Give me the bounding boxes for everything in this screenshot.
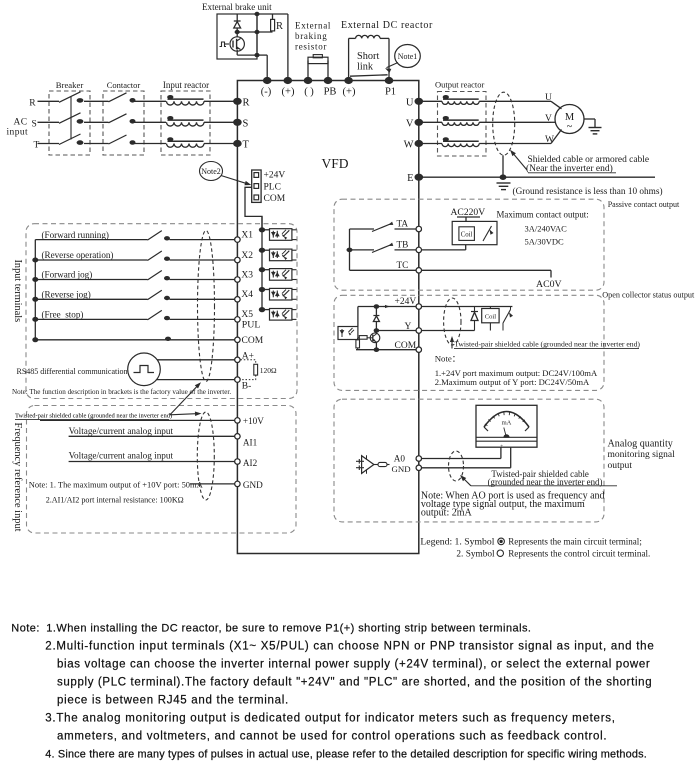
svg-text:mA: mA — [502, 420, 512, 427]
svg-text:Note: 1. The maximum output of: Note: 1. The maximum output of +10V port… — [29, 480, 204, 490]
svg-text:Open collector status output: Open collector status output — [602, 291, 695, 300]
svg-text:1.When installing the DC react: 1.When installing the DC reactor, be sur… — [46, 623, 531, 635]
svg-text:PUL: PUL — [242, 320, 261, 331]
svg-text:B-: B- — [242, 381, 252, 391]
svg-text:Coil: Coil — [461, 232, 473, 239]
svg-text:link: link — [357, 62, 374, 73]
svg-text:S: S — [243, 118, 249, 129]
svg-text:V: V — [545, 114, 552, 124]
svg-text:T: T — [243, 140, 250, 151]
svg-text:Breaker: Breaker — [56, 80, 84, 90]
svg-text:S: S — [32, 119, 37, 129]
svg-text:(Reverse operation): (Reverse operation) — [42, 250, 114, 260]
svg-text:Note:: Note: — [11, 623, 40, 635]
svg-text:ammeters, and voltmeters, and: ammeters, and voltmeters, and cannot be … — [57, 731, 607, 743]
svg-text:output: output — [608, 460, 633, 471]
svg-text:AI1: AI1 — [243, 437, 258, 447]
svg-text:(grounded near the inverter en: (grounded near the inverter end) — [488, 477, 603, 487]
svg-text:Represents the control circuit: Represents the control circuit terminal. — [508, 548, 650, 558]
svg-text:bias voltage can choose the in: bias voltage can choose the inverter int… — [57, 659, 650, 671]
svg-text:Short: Short — [357, 51, 379, 62]
svg-text:(-): (-) — [261, 87, 272, 98]
svg-text:Passive contact output: Passive contact output — [608, 200, 680, 209]
svg-text:3A/240VAC: 3A/240VAC — [525, 224, 568, 234]
svg-text:AC0V: AC0V — [536, 279, 562, 290]
svg-text:PB: PB — [324, 87, 337, 98]
svg-text:Note2: Note2 — [201, 167, 221, 176]
svg-text:W: W — [545, 135, 554, 145]
svg-text:Frequency reference input: Frequency reference input — [12, 423, 23, 532]
svg-text:GND: GND — [243, 480, 263, 490]
svg-text:Analog quantity: Analog quantity — [608, 438, 673, 449]
svg-text:Coil: Coil — [485, 313, 497, 320]
svg-text:U: U — [406, 97, 414, 108]
svg-text:(+): (+) — [282, 87, 295, 98]
svg-text:3.The analog monitoring output: 3.The analog monitoring output is dedica… — [45, 713, 615, 725]
svg-text:T: T — [34, 141, 40, 151]
svg-text:External: External — [295, 21, 331, 31]
svg-text:Input terminals: Input terminals — [12, 260, 23, 323]
svg-text:X4: X4 — [241, 290, 253, 300]
svg-text:+10V: +10V — [243, 416, 264, 426]
svg-text:2.AI1/AI2 port internal resist: 2.AI1/AI2 port internal resistance: 100K… — [46, 496, 184, 505]
svg-text:External brake unit: External brake unit — [202, 2, 272, 12]
svg-text:(Ground resistance is less tha: (Ground resistance is less than 10 ohms) — [513, 187, 663, 197]
svg-text:W: W — [404, 140, 414, 151]
svg-text:X3: X3 — [241, 270, 253, 280]
svg-text:P1: P1 — [385, 87, 396, 98]
svg-text:2.Multi-function input termina: 2.Multi-function input terminals (X1~ X5… — [45, 641, 654, 653]
svg-text:PLC: PLC — [264, 183, 281, 193]
svg-text:2. Symbol: 2. Symbol — [456, 549, 495, 559]
svg-text:output: 2mA: output: 2mA — [421, 508, 473, 519]
svg-text:monitoring signal: monitoring signal — [608, 450, 676, 460]
svg-text:+24V: +24V — [264, 171, 286, 181]
svg-text:GND: GND — [392, 464, 411, 474]
svg-text:5A/30VDC: 5A/30VDC — [525, 237, 565, 247]
svg-text:Note1: Note1 — [398, 52, 418, 61]
svg-text:R: R — [243, 97, 250, 108]
svg-text:(Reverse jog): (Reverse jog) — [42, 290, 91, 300]
svg-text:braking: braking — [295, 31, 327, 41]
svg-text:AI2: AI2 — [243, 458, 258, 468]
svg-text:External DC reactor: External DC reactor — [341, 20, 433, 31]
svg-text:TC: TC — [397, 261, 409, 271]
svg-text:A0: A0 — [394, 454, 406, 464]
svg-text:TB: TB — [397, 240, 409, 250]
svg-text:COM: COM — [264, 194, 286, 204]
svg-text:piece is between RJ45 and the: piece is between RJ45 and the terminal. — [57, 695, 289, 707]
svg-text:+24V: +24V — [395, 297, 417, 307]
svg-text:VFD: VFD — [321, 156, 348, 171]
svg-text:R: R — [29, 98, 36, 108]
svg-text:Represents the main circuit te: Represents the main circuit terminal; — [508, 537, 642, 547]
svg-text:Legend: 1. Symbol: Legend: 1. Symbol — [420, 537, 494, 548]
svg-text:( ): ( ) — [304, 87, 314, 98]
svg-text:Note：: Note： — [435, 353, 461, 363]
svg-text:Output reactor: Output reactor — [435, 80, 484, 90]
svg-text:2.Maximum output of Y port: DC: 2.Maximum output of Y port: DC24V/50mA — [435, 377, 590, 387]
svg-text:X2: X2 — [241, 251, 253, 261]
svg-text:(Forward running): (Forward running) — [42, 230, 109, 240]
svg-text:E: E — [407, 173, 413, 184]
svg-text:supply (PLC terminal).The fact: supply (PLC terminal).The factory defaul… — [57, 677, 652, 689]
svg-text:120Ω: 120Ω — [260, 366, 277, 375]
svg-text:X1: X1 — [241, 230, 253, 240]
svg-text:Twisted-pair shielded cable (g: Twisted-pair shielded cable (grounded ne… — [15, 412, 172, 419]
svg-text:Contactor: Contactor — [107, 80, 141, 90]
svg-text:R: R — [276, 21, 283, 32]
svg-text:(Free stop): (Free stop) — [42, 310, 84, 320]
svg-text:Voltage/current analog input: Voltage/current analog input — [69, 426, 174, 436]
svg-text:Note: The function description: Note: The function description in bracke… — [12, 388, 231, 396]
svg-text:AC: AC — [14, 118, 28, 128]
svg-text:RS485 differential communicati: RS485 differential communication — [17, 367, 128, 376]
svg-text:COM: COM — [242, 336, 264, 346]
svg-text:resistor: resistor — [295, 42, 327, 52]
svg-text:(+): (+) — [343, 87, 356, 98]
svg-text:AC220V: AC220V — [451, 207, 486, 218]
svg-text:Twisted-pair shielded cable (g: Twisted-pair shielded cable (grounded ne… — [454, 339, 640, 348]
svg-text:4. Since there are many types: 4. Since there are many types of pulses … — [45, 749, 647, 761]
svg-text:~: ~ — [567, 122, 573, 133]
svg-text:Voltage/current analog input: Voltage/current analog input — [69, 450, 174, 460]
svg-text:Input reactor: Input reactor — [163, 80, 209, 90]
svg-text:Maximum contact output:: Maximum contact output: — [497, 209, 589, 219]
svg-text:(Forward jog): (Forward jog) — [42, 270, 93, 280]
svg-text:TA: TA — [397, 220, 409, 230]
svg-text:input: input — [7, 128, 29, 138]
svg-text:V: V — [406, 118, 414, 129]
